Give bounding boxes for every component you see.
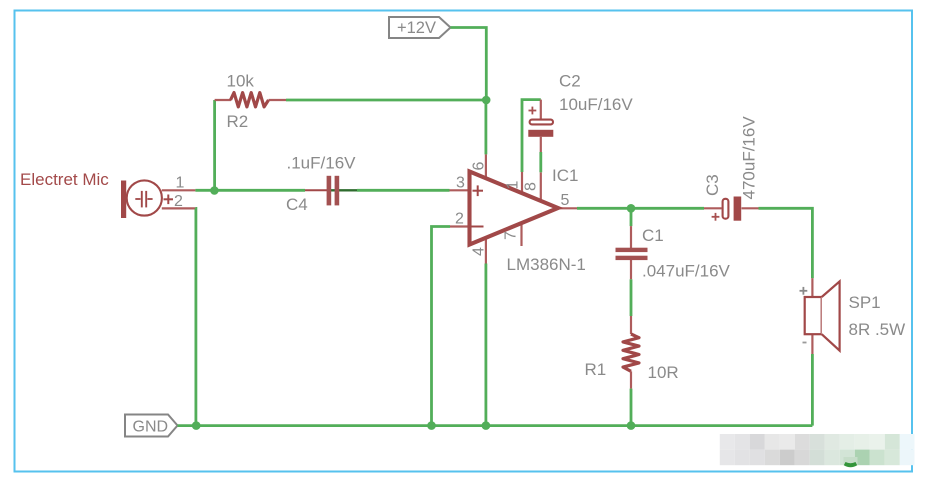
svg-text:2: 2 <box>174 193 183 210</box>
svg-text:5: 5 <box>561 192 570 209</box>
wire C2 to pin8 <box>539 152 542 172</box>
wire GND rail <box>178 424 813 427</box>
node output junction <box>627 204 636 213</box>
wire mic pin1 to junction <box>195 189 214 192</box>
wire +12V node to pin6 <box>484 100 487 154</box>
svg-text:.047uF/16V: .047uF/16V <box>642 262 731 281</box>
node junction +12V <box>482 96 491 105</box>
capacitor C4 .1uF/16V <box>286 154 357 215</box>
svg-text:GND: GND <box>133 419 169 436</box>
electret mic <box>20 170 195 218</box>
svg-text:Electret Mic: Electret Mic <box>20 170 109 189</box>
svg-text:+12V: +12V <box>397 19 436 37</box>
wire C1 to R1 <box>630 279 633 316</box>
node GND junction R1 <box>627 421 636 430</box>
svg-text:10R: 10R <box>648 363 679 382</box>
svg-text:R1: R1 <box>585 360 607 379</box>
wire top rail to +12V node <box>286 99 486 102</box>
svg-text:6: 6 <box>471 162 488 171</box>
svg-text:10k: 10k <box>227 72 255 91</box>
capacitor C3 470uF/16V <box>703 116 759 221</box>
svg-text:C4: C4 <box>286 195 308 214</box>
wire R2 left riser <box>213 100 216 191</box>
svg-text:SP1: SP1 <box>849 293 881 312</box>
svg-text:1: 1 <box>505 181 522 190</box>
svg-text:10uF/16V: 10uF/16V <box>559 95 633 114</box>
svg-text:IC1: IC1 <box>552 166 578 185</box>
svg-text:C1: C1 <box>642 226 664 245</box>
watermark logo blur <box>720 434 915 467</box>
wire +12V flag to node <box>451 28 487 101</box>
wire speaker to GND rail <box>811 354 814 426</box>
svg-text:8R .5W: 8R .5W <box>849 320 906 339</box>
op-amp IC1 LM386N-1 <box>450 154 586 274</box>
wire R1 to GND <box>630 389 633 426</box>
node GND junction pin2 <box>427 421 436 430</box>
svg-text:.1uF/16V: .1uF/16V <box>287 154 357 173</box>
svg-text:470uF/16V: 470uF/16V <box>740 116 759 200</box>
svg-text:LM386N-1: LM386N-1 <box>507 255 586 274</box>
capacitor C2 10uF/16V <box>528 72 633 153</box>
node junction mic/R2/C4 <box>210 186 219 195</box>
svg-text:4: 4 <box>471 247 488 256</box>
resistor R1 10R <box>585 316 679 389</box>
svg-text:C2: C2 <box>559 72 581 91</box>
svg-text:C3: C3 <box>703 174 722 196</box>
svg-text:R2: R2 <box>227 112 249 131</box>
wire junction to C4 <box>215 189 305 192</box>
svg-text:1: 1 <box>176 175 185 192</box>
svg-text:2: 2 <box>455 211 464 228</box>
wire pin2 net to GND riser <box>432 227 451 426</box>
wire output junction to C1 <box>630 208 633 226</box>
node GND junction mic <box>192 421 201 430</box>
node GND junction pin4 <box>482 421 491 430</box>
ground flag GND <box>125 415 178 437</box>
svg-text:3: 3 <box>456 175 465 192</box>
speaker SP1 <box>800 278 906 354</box>
resistor R2 10k <box>215 72 286 132</box>
wire output net <box>577 207 704 210</box>
capacitor C1 .047uF/16V <box>616 226 731 281</box>
supply flag +12V <box>389 17 451 38</box>
svg-text:7: 7 <box>503 231 520 240</box>
wire pin4 riser to GND <box>484 264 487 426</box>
svg-text:8: 8 <box>523 182 540 191</box>
wire C4 to pin3 <box>357 189 450 192</box>
wire mic pin2 riser to GND <box>194 208 197 425</box>
wire C2 to pin1 <box>522 100 541 172</box>
wire C3 to speaker <box>759 208 813 278</box>
